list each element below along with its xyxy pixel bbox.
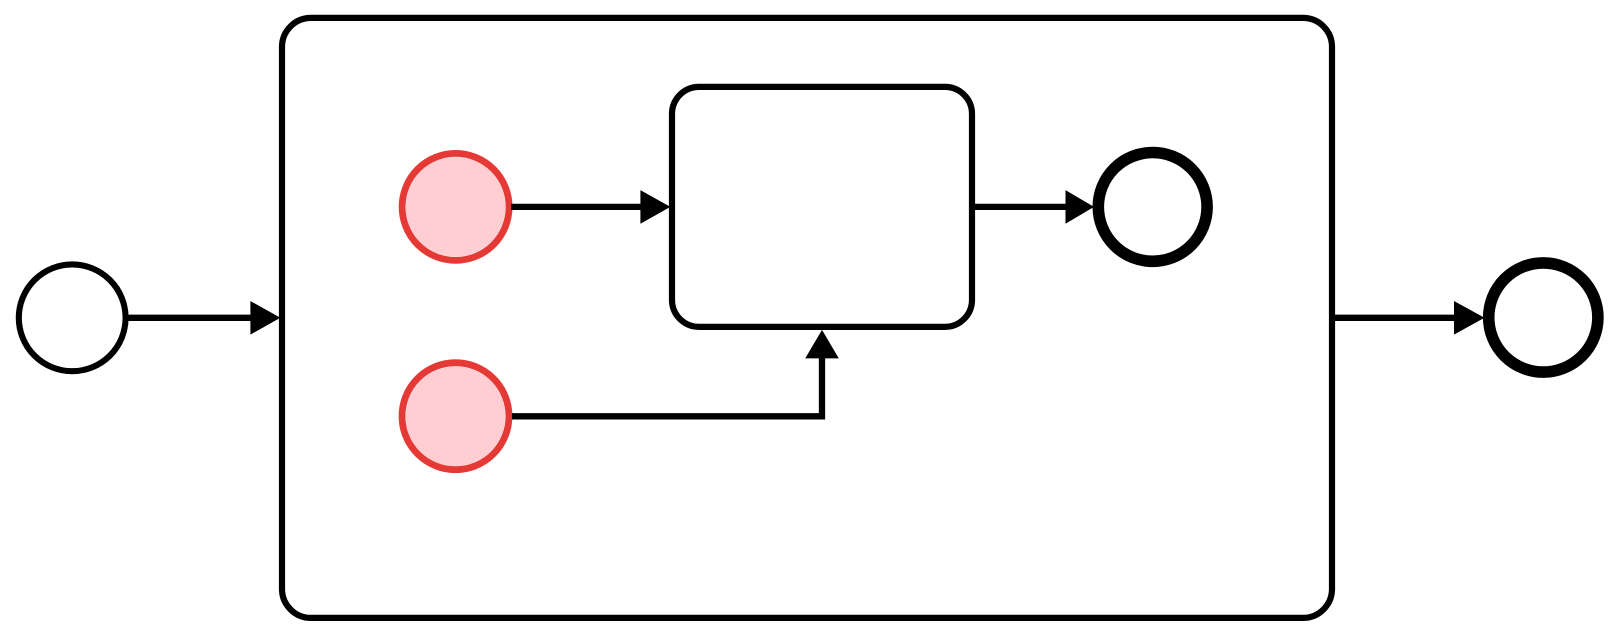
start event B fill (red highlighted, inner bottom): [406, 366, 506, 466]
sequence flow: red event B to task bottom (L-shaped): [512, 330, 839, 416]
end event (outer): [1489, 263, 1598, 372]
sequence flow: task to end event (inner): [975, 190, 1094, 224]
start event A ring: [402, 153, 509, 260]
task: [672, 87, 972, 327]
subprocess (expanded): [282, 18, 1332, 618]
sequence flow: red event A to task: [511, 190, 670, 224]
start event (outer): [19, 264, 126, 371]
start event B ring: [402, 363, 509, 470]
sequence flow: start event to subprocess: [127, 301, 280, 335]
start event A fill (red highlighted, inner top): [406, 157, 506, 257]
end event (inner): [1098, 153, 1207, 262]
sequence flow: subprocess to end event (outer): [1335, 301, 1485, 335]
